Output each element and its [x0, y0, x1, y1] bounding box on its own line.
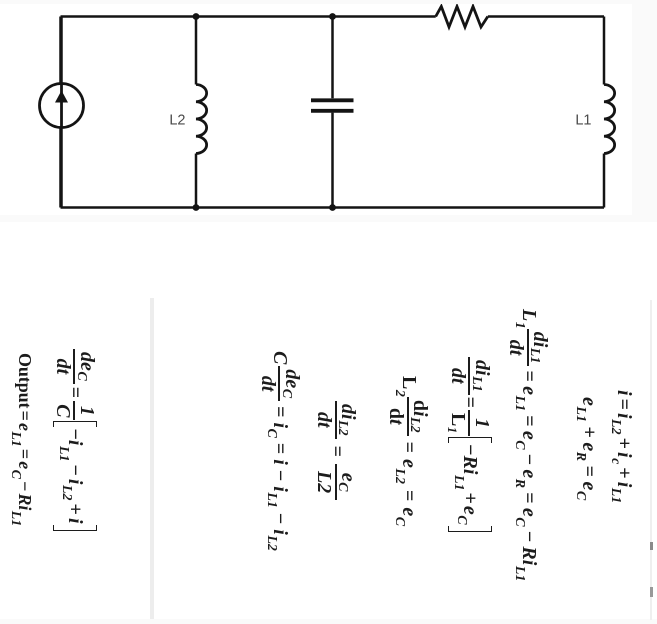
svg-text:L1: L1 — [575, 113, 591, 129]
svg-text:L2: L2 — [169, 113, 185, 129]
